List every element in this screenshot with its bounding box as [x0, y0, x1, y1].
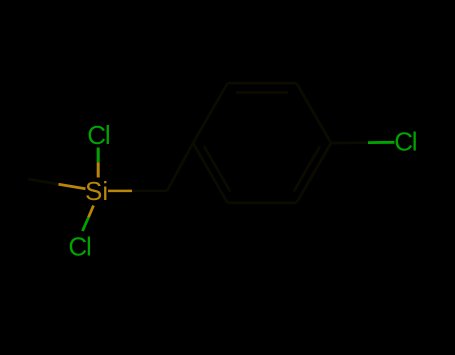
bond C1-ring ipso	[167, 143, 193, 191]
ring inner double bond right	[294, 146, 320, 191]
bond ring-Cl carbon half	[331, 141, 368, 144]
ring inner double bond left	[204, 146, 230, 191]
bond Si-Cl bottom, silicon half	[88, 206, 93, 218]
svg-text:Cl: Cl	[68, 232, 91, 262]
bond Si-C1 silicon half	[108, 190, 132, 193]
ring edge L-TL	[193, 83, 228, 143]
bond Si-Cl bottom, chlorine half	[83, 218, 89, 232]
ring inner double bond top	[236, 91, 288, 94]
bond Si-Cl top, silicon half	[97, 162, 100, 177]
ring edge BR-BL	[228, 201, 297, 204]
svg-text:Cl: Cl	[87, 120, 110, 150]
ring edge TL-TR	[228, 82, 297, 85]
bond Si-Cl top, chlorine half	[97, 148, 100, 163]
bond Si-CH3 silicon half	[59, 184, 86, 189]
bond Si-C1 carbon half	[132, 190, 167, 193]
ring edge R-BR	[297, 143, 332, 203]
bond ring-Cl chlorine half	[368, 141, 395, 144]
svg-text:Si: Si	[85, 176, 108, 206]
svg-text:Cl: Cl	[394, 127, 417, 157]
bond Si-CH3 carbon half	[28, 179, 59, 184]
ring edge BL-L	[193, 143, 228, 203]
ring edge TR-R	[297, 83, 332, 143]
